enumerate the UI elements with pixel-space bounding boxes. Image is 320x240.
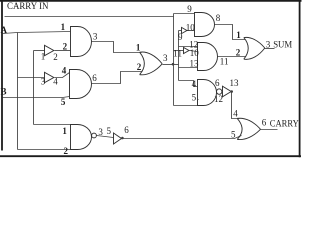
- wire A to inverter U2 input: [18, 77, 45, 79]
- svg-text:2: 2: [63, 41, 68, 51]
- border right: [299, 0, 301, 157]
- wire xor vertical: [178, 31, 180, 81]
- wire SUM output: [265, 48, 275, 50]
- U10 output junction dot: [230, 90, 233, 93]
- nand U8 bubble: [92, 133, 97, 138]
- border top: [0, 0, 302, 2]
- wire to inverter U6a input: [179, 30, 182, 32]
- svg-text:2: 2: [137, 62, 142, 72]
- svg-text:11: 11: [220, 56, 229, 66]
- svg-text:4: 4: [62, 65, 67, 75]
- and gate U3a: [71, 27, 92, 57]
- svg-text:1: 1: [41, 51, 46, 61]
- svg-text:5: 5: [231, 129, 236, 139]
- svg-text:1: 1: [61, 22, 66, 32]
- wire U3b out to SUM OR pin1: [215, 25, 246, 40]
- wire B vertical: [33, 51, 35, 125]
- svg-text:13: 13: [190, 58, 200, 68]
- and gate U3b: [195, 13, 215, 37]
- wire A: [3, 32, 71, 34]
- wire A vertical: [17, 33, 19, 150]
- wire carry-in vertical: [173, 14, 175, 106]
- svg-text:13: 13: [230, 78, 240, 88]
- svg-text:5: 5: [192, 92, 197, 102]
- svg-text:2: 2: [53, 52, 58, 62]
- svg-text:3: 3: [41, 77, 46, 87]
- svg-text:1: 1: [62, 126, 67, 136]
- wire to U3b pin13: [179, 67, 198, 69]
- svg-text:12: 12: [214, 94, 223, 104]
- wire U3a out to OR U5 pin1: [92, 42, 142, 53]
- wire A to U8 pin2: [18, 149, 73, 151]
- inverter U2 (A): [45, 72, 54, 82]
- svg-text:10: 10: [190, 48, 200, 58]
- svg-text:6: 6: [262, 117, 267, 127]
- wire to U3 pin9: [174, 13, 195, 15]
- svg-text:1: 1: [136, 43, 141, 53]
- svg-text:11: 11: [173, 48, 182, 58]
- junction node xor output: [172, 63, 175, 66]
- svg-text:6: 6: [124, 125, 129, 135]
- svg-text:3: 3: [93, 32, 98, 42]
- svg-text:3: 3: [163, 53, 168, 63]
- svg-text:SUM: SUM: [273, 39, 292, 49]
- wire U3c out to SUM OR pin2: [218, 56, 246, 58]
- inverter U6b: [184, 47, 190, 53]
- svg-text:6: 6: [92, 73, 97, 83]
- svg-text:4: 4: [192, 79, 197, 89]
- svg-text:CARRY: CARRY: [270, 118, 299, 128]
- wire U6b out to gate: [190, 51, 198, 52]
- svg-text:2: 2: [64, 146, 69, 156]
- wire to inverter U6 input: [174, 50, 184, 52]
- svg-text:9: 9: [187, 4, 192, 14]
- and gate U4: [70, 70, 92, 99]
- wire carry-in to U7 pin5: [174, 100, 199, 106]
- svg-text:CARRY IN: CARRY IN: [7, 1, 49, 11]
- U9 output junction dot: [121, 137, 124, 140]
- svg-text:10: 10: [186, 23, 196, 33]
- svg-text:5: 5: [61, 97, 66, 107]
- border left: [1, 0, 3, 151]
- svg-text:9: 9: [178, 32, 183, 42]
- svg-text:2: 2: [236, 48, 241, 58]
- svg-text:6: 6: [215, 78, 220, 88]
- wire U2 output to U4 pin4: [55, 73, 70, 78]
- wire U1 output to U3a pin2: [55, 50, 71, 52]
- wire U6a out to U3b pin10: [187, 30, 195, 32]
- svg-text:4: 4: [53, 77, 58, 87]
- border bottom: [0, 155, 301, 157]
- svg-text:5: 5: [107, 126, 112, 136]
- svg-text:1: 1: [236, 30, 241, 40]
- wire B to U8 pin1: [34, 124, 73, 126]
- wire carry chain: [123, 136, 242, 139]
- wire OR U5 output: [163, 64, 179, 66]
- svg-text:4: 4: [233, 109, 238, 119]
- inverter U10: [223, 86, 232, 97]
- inverter U1 (B): [45, 45, 54, 55]
- wire U10 out down to CARRY OR pin4: [232, 92, 240, 119]
- wire CARRY output: [261, 129, 278, 131]
- inverter U9: [114, 133, 122, 144]
- nand gate U8: [71, 125, 92, 150]
- nand U7 bubble: [217, 89, 222, 94]
- svg-text:8: 8: [216, 13, 221, 23]
- wire B: [3, 97, 70, 98]
- or gate CARRY: [237, 118, 260, 139]
- wire U4 out to OR U5 pin2: [92, 72, 143, 84]
- nand gate U7: [198, 80, 217, 106]
- wire xor to U7 pin4: [179, 81, 198, 87]
- and gate U3c: [198, 43, 218, 71]
- or gate SUM: [244, 37, 265, 59]
- wire CARRY IN: [5, 16, 174, 18]
- svg-text:3: 3: [98, 127, 103, 137]
- svg-text:B: B: [1, 86, 7, 96]
- wire B to inverter U1 input: [34, 50, 45, 52]
- or gate U5: [140, 52, 163, 75]
- inverter U6a: [182, 27, 187, 33]
- wire U8 out to inverter U9: [97, 136, 114, 138]
- wire to U3b pin12: [179, 46, 198, 48]
- svg-text:3: 3: [266, 39, 271, 49]
